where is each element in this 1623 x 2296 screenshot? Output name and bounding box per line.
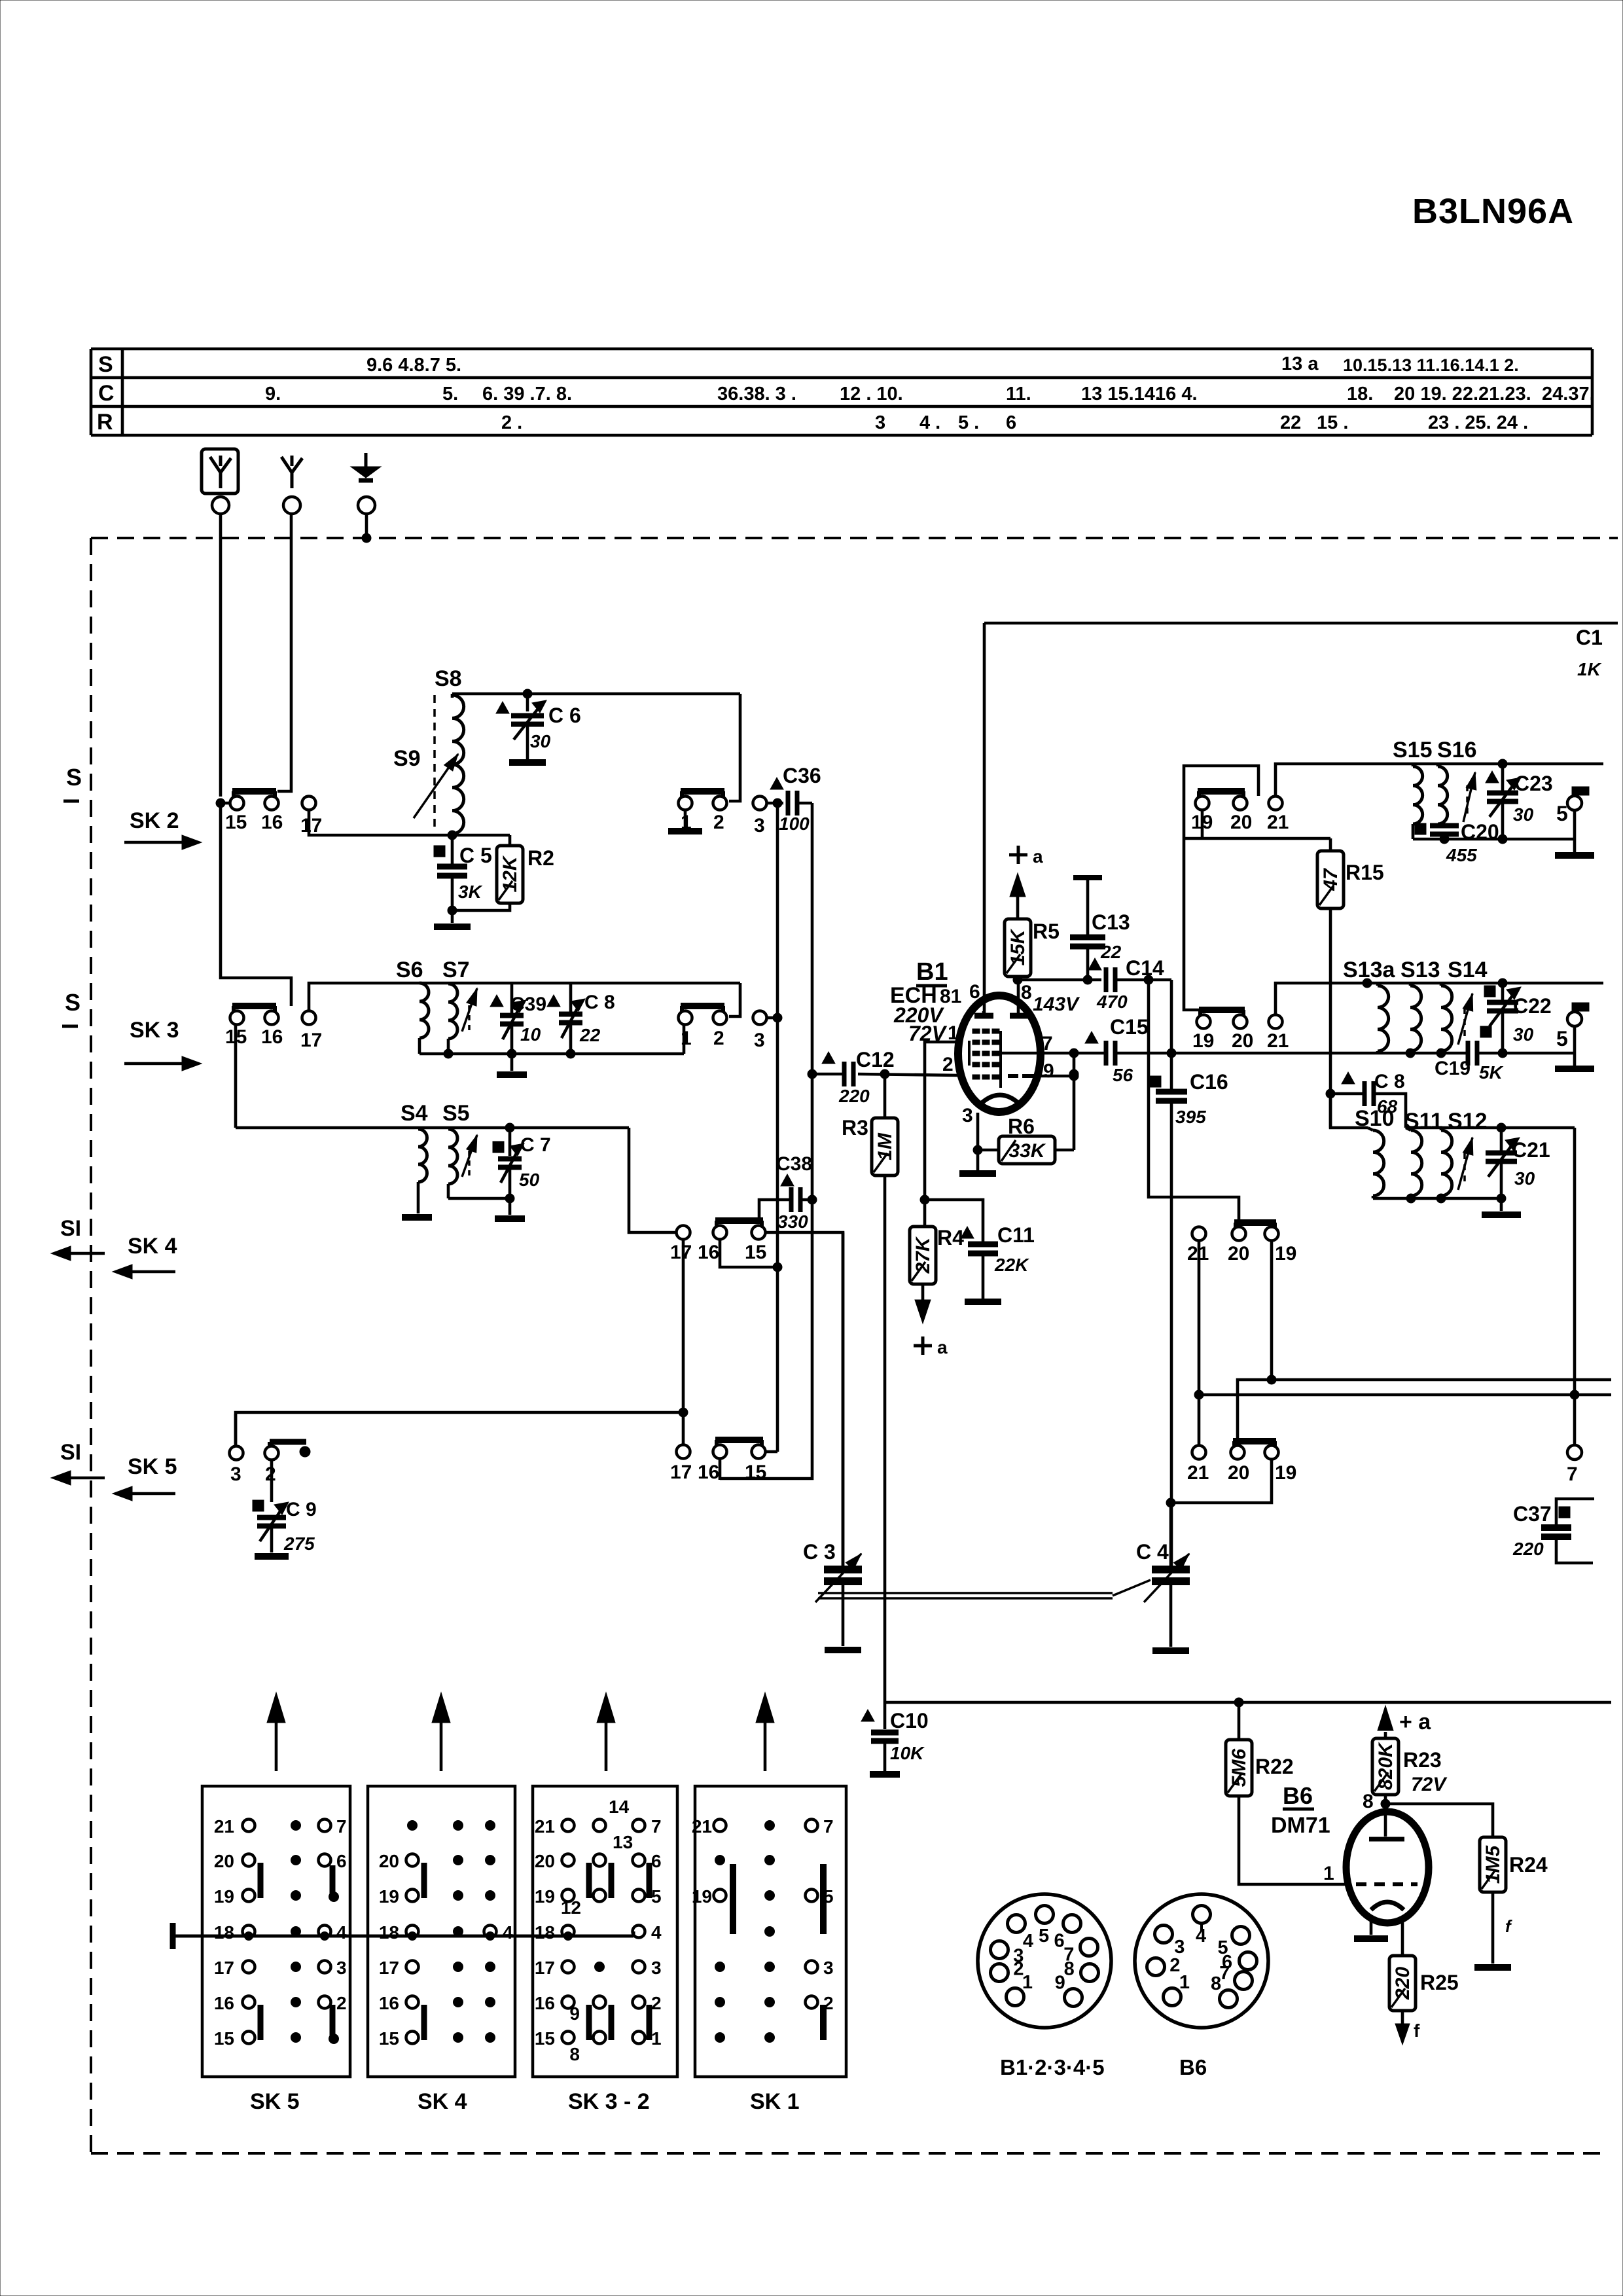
switch contacts 1-2 (SK3 row): [681, 1003, 724, 1009]
contact 17 (osc lower): [677, 1445, 690, 1459]
capacitor C9 marker: [253, 1500, 264, 1511]
svg-text:22: 22: [1280, 412, 1301, 433]
junction S14 bottom: [1436, 1049, 1446, 1058]
svg-text:15: 15: [745, 1462, 766, 1483]
svg-text:B6: B6: [1283, 1782, 1313, 1809]
junction S7 bottom: [444, 1049, 453, 1058]
variable arrow S16: [1463, 772, 1475, 822]
capacitor C13 top bar: [1073, 875, 1102, 880]
wire C15 to IF transformer: [1115, 1052, 1468, 1055]
svg-text:5: 5: [1556, 802, 1568, 825]
ground below C39: [510, 1054, 514, 1071]
wire grid6 top bus: [984, 622, 1618, 625]
trimmer capacitor C6: [526, 694, 529, 711]
junction reaction line: [1570, 1390, 1579, 1399]
svg-text:1: 1: [651, 2028, 662, 2049]
switch wafer SK5 box: [202, 1786, 350, 2077]
wire staple to contact 20: [1184, 766, 1258, 838]
switch SK2 contacts 15-16: [232, 788, 276, 795]
svg-text:21: 21: [535, 1816, 555, 1837]
svg-text:S15: S15: [1393, 738, 1433, 762]
junction S11 bottom: [1406, 1194, 1416, 1203]
svg-text:330: 330: [777, 1211, 808, 1232]
wire IF2 bar feed: [1184, 838, 1200, 1010]
coil S13: [1410, 986, 1421, 1051]
wafer common shaft line: [170, 1923, 176, 1949]
svg-text:820K: 820K: [1375, 1742, 1397, 1790]
tube socket B1-2-3-4-5: [978, 1894, 1111, 2028]
svg-text:3K: 3K: [458, 882, 483, 902]
switch SK3 arrow: [124, 1062, 185, 1066]
SK5 middle dots: [291, 1821, 301, 1831]
junction C12/R3: [880, 1069, 889, 1079]
SK1 right bridges: [820, 1864, 827, 1934]
variable arrow S7: [462, 988, 477, 1031]
variable arrow S12: [1458, 1138, 1472, 1190]
B6 filament arc: [1371, 1902, 1404, 1910]
svg-text:5.: 5.: [442, 384, 458, 404]
arrow above SK4 wafer: [440, 1713, 443, 1771]
svg-text:C23: C23: [1514, 772, 1553, 795]
wire SK2-17 to C5/R2 node: [309, 810, 451, 835]
svg-text:+ a: + a: [1399, 1710, 1431, 1734]
wire R3 down to HT bus: [883, 1175, 887, 1702]
SK4 left bridges: [421, 1863, 427, 1898]
IF1 bottom rail: [1413, 838, 1575, 841]
svg-text:S: S: [66, 764, 82, 791]
S10-S12 bottom rail: [1373, 1197, 1501, 1200]
svg-text:C15: C15: [1110, 1015, 1149, 1039]
black square marker C22 top: [1484, 986, 1495, 997]
wire SK5-2 down to C9: [270, 1460, 274, 1502]
svg-text:SK 1: SK 1: [750, 2089, 800, 2114]
wire pin8 node to C14: [1018, 978, 1101, 982]
svg-text:15: 15: [745, 1242, 766, 1263]
resistor R2: [452, 834, 510, 837]
coil S8 S9 (antenna coil): [452, 695, 464, 834]
coil S14: [1441, 986, 1452, 1051]
resistor R22: [1238, 1702, 1241, 1740]
svg-text:4 .: 4 .: [919, 412, 940, 433]
svg-text:17: 17: [214, 1958, 234, 1978]
svg-text:220: 220: [1392, 1967, 1414, 2000]
junction contact3 SK2 row: [773, 798, 782, 808]
svg-text:C12: C12: [856, 1048, 895, 1071]
svg-text:3: 3: [651, 1958, 662, 1978]
svg-text:S12: S12: [1448, 1109, 1488, 1134]
resistor R25: [1389, 1956, 1416, 2011]
junction 19 line: [1267, 1375, 1276, 1384]
svg-text:15: 15: [379, 2028, 399, 2049]
wire osc-16 down to junction: [720, 1240, 777, 1267]
IF2 top rail: [1367, 982, 1603, 985]
SK3-2 middle pins: [594, 1820, 606, 1832]
svg-text:6: 6: [336, 1851, 347, 1871]
junction S12 bottom: [1436, 1194, 1446, 1203]
tube socket B6: [1135, 1894, 1268, 2028]
ground below C11: [965, 1299, 1001, 1305]
svg-text:C: C: [98, 381, 115, 406]
svg-text:17: 17: [300, 815, 322, 836]
wire 19 stub down: [1201, 810, 1204, 838]
svg-text:C37: C37: [1513, 1502, 1552, 1526]
svg-text:30: 30: [530, 731, 551, 751]
svg-text:13 15.14.: 13 15.14.: [1081, 384, 1160, 404]
svg-text:C16: C16: [1190, 1070, 1228, 1094]
svg-text:SK 5: SK 5: [250, 2089, 300, 2114]
svg-text:5 .: 5 .: [958, 412, 979, 433]
junction C7 top: [505, 1123, 514, 1132]
svg-text:21: 21: [1267, 812, 1289, 833]
junction C39 bottom: [507, 1049, 516, 1058]
ground below C7: [508, 1198, 512, 1215]
wire 19 lower to AVC node: [1171, 1460, 1272, 1503]
svg-text:4: 4: [503, 1922, 513, 1943]
wire R15 down: [1329, 908, 1332, 1128]
B6 filament right lead: [1401, 1918, 1404, 1956]
svg-text:18: 18: [535, 1922, 555, 1943]
switch wafer SK1 box: [695, 1786, 846, 2077]
svg-text:10K: 10K: [890, 1743, 925, 1763]
resistor R15: [1329, 838, 1332, 851]
svg-text:C11: C11: [997, 1223, 1035, 1247]
svg-text:20: 20: [379, 1851, 399, 1871]
junction earth on border: [362, 533, 371, 543]
ground IF1: [1573, 839, 1577, 852]
wire A1 bus down to SK3: [221, 803, 291, 1006]
svg-text:72V: 72V: [1411, 1774, 1448, 1795]
svg-text:20 19. 22.21.23.: 20 19. 22.21.23.: [1394, 384, 1531, 404]
svg-text:9.: 9.: [265, 384, 281, 404]
svg-text:30: 30: [1513, 804, 1534, 825]
svg-text:SI: SI: [60, 1216, 81, 1241]
ground IF2: [1573, 1053, 1577, 1066]
svg-text:C 9: C 9: [286, 1499, 317, 1520]
svg-text:SK 4: SK 4: [418, 2089, 467, 2114]
svg-text:220: 220: [838, 1086, 870, 1106]
svg-text:C36: C36: [783, 764, 821, 787]
wire pin1 left and down: [925, 1042, 958, 1227]
ground below C6: [509, 759, 546, 766]
svg-text:6: 6: [1054, 1931, 1065, 1952]
ground below contact 1 (SK2 row): [684, 810, 687, 829]
capacitor C8 (osc): [1342, 1072, 1355, 1084]
svg-text:8: 8: [1064, 1958, 1075, 1979]
wire 19 down: [1270, 1241, 1274, 1380]
svg-text:17: 17: [379, 1958, 399, 1978]
svg-text:S: S: [98, 352, 113, 377]
svg-text:36.38. 3 .: 36.38. 3 .: [717, 384, 796, 404]
wire S6/S7 bottom rail: [419, 1052, 684, 1056]
svg-text:S7: S7: [442, 958, 470, 982]
junction R6/pin3: [973, 1145, 982, 1155]
parts location table frame: [91, 348, 1592, 351]
capacitor C20: [1430, 823, 1459, 829]
svg-text:SI: SI: [60, 1440, 81, 1465]
HT bus: [885, 1701, 1611, 1704]
capacitor C16 marker: [1150, 1076, 1161, 1087]
junction C12/grid bus: [808, 1069, 817, 1079]
svg-text:15: 15: [214, 2028, 234, 2049]
svg-text:7: 7: [651, 1816, 662, 1837]
resistor R4: [910, 1227, 936, 1284]
svg-text:3: 3: [754, 815, 765, 836]
svg-text:11.: 11.: [1006, 384, 1031, 404]
svg-text:1K: 1K: [1577, 659, 1602, 679]
svg-text:R23: R23: [1403, 1748, 1442, 1772]
terminal 5 (IF2): [1572, 1003, 1589, 1011]
antenna terminal A2 (antenna symbol): [291, 470, 294, 488]
junction C22 bottom: [1498, 1049, 1507, 1058]
svg-text:SK 5: SK 5: [128, 1454, 177, 1479]
svg-text:16: 16: [261, 1026, 283, 1048]
svg-text:R4: R4: [937, 1226, 964, 1249]
svg-text:S13a: S13a: [1343, 958, 1395, 982]
contact 2 (SK5) with bar: [265, 1446, 279, 1460]
svg-text:81: 81: [940, 986, 961, 1007]
svg-text:15: 15: [535, 2028, 555, 2049]
svg-text:5M6: 5M6: [1228, 1749, 1250, 1787]
svg-text:15K: 15K: [1007, 928, 1029, 965]
svg-text:C 4: C 4: [1136, 1540, 1169, 1564]
svg-text:5: 5: [1556, 1027, 1568, 1050]
svg-text:5K: 5K: [1479, 1062, 1504, 1083]
coil S4: [418, 1129, 427, 1182]
wire S5 rail to oscillator switch: [629, 1128, 676, 1232]
contact 21 (IF in): [1269, 797, 1283, 810]
wire 21 riser to S15 rail: [1275, 764, 1603, 796]
svg-text:16: 16: [379, 1993, 399, 2013]
ground below C21: [1500, 1198, 1503, 1211]
junction C23 bottom: [1498, 834, 1507, 844]
tube B6 envelope: [1346, 1812, 1429, 1923]
svg-text:3: 3: [754, 1030, 765, 1051]
SK5 right bridges: [330, 1865, 336, 1894]
pin 6 electrode: [974, 1013, 993, 1019]
svg-text:S8: S8: [435, 666, 462, 691]
svg-text:8: 8: [569, 2044, 580, 2064]
svg-text:C19: C19: [1435, 1058, 1471, 1079]
ground below C5: [451, 910, 454, 923]
svg-text:2: 2: [713, 1028, 724, 1049]
svg-text:20: 20: [535, 1851, 555, 1871]
svg-text:22K: 22K: [994, 1255, 1029, 1275]
capacitor C10: [861, 1710, 874, 1721]
svg-text:20: 20: [1232, 1030, 1253, 1052]
wire top rail right to contacts 1-2 (SK2 row): [729, 694, 740, 801]
junction AVC/C4: [1166, 1498, 1175, 1507]
svg-text:7: 7: [1042, 1033, 1053, 1054]
svg-text:S5: S5: [442, 1101, 470, 1126]
chassis dashed border top: [91, 537, 1618, 539]
junction S9 bottom / C5: [448, 831, 457, 840]
svg-text:16: 16: [698, 1462, 719, 1483]
switch contacts 19-20 (IF in, band top): [1198, 788, 1245, 795]
SK1 left bridge: [730, 1864, 736, 1934]
svg-text:R5: R5: [1033, 920, 1060, 943]
switch wafer SK4 box: [368, 1786, 515, 2077]
wire osc-15 right to C3 line: [765, 1232, 843, 1566]
junction C21 bottom: [1497, 1194, 1506, 1203]
wire osc coupling down to band switch: [1149, 980, 1239, 1221]
wire R25 to f: [1401, 2011, 1404, 2026]
tuning gang coupling line: [818, 1592, 1113, 1594]
screen grid bracket inside B1: [968, 1041, 971, 1066]
chassis dashed border left: [90, 538, 92, 2153]
wire C16 branch down: [1170, 980, 1173, 1090]
wire C36 down (osc grid bus): [811, 803, 814, 1074]
supply +a above R5: [1009, 853, 1027, 857]
junction S13 bottom: [1406, 1049, 1415, 1058]
svg-text:21: 21: [1267, 1030, 1289, 1052]
svg-text:R3: R3: [842, 1116, 868, 1139]
capacitor C15: [1085, 1031, 1098, 1043]
svg-text:16: 16: [535, 1993, 555, 2013]
svg-text:8: 8: [1363, 1791, 1374, 1812]
svg-text:R24: R24: [1509, 1853, 1548, 1876]
capacitor C16: [1156, 1089, 1187, 1095]
svg-text:20: 20: [1230, 812, 1252, 833]
junction C6 top: [523, 689, 532, 698]
svg-text:19: 19: [692, 1886, 712, 1907]
svg-text:1: 1: [1179, 1972, 1190, 1993]
svg-text:22: 22: [1100, 942, 1122, 962]
SK5 left bridges: [258, 1863, 264, 1898]
svg-text:3: 3: [823, 1958, 834, 1978]
wire earth to chassis: [365, 514, 368, 538]
ground below pin3: [959, 1170, 996, 1177]
SK1 middle dots: [765, 1821, 775, 1831]
resistor R24: [1480, 1837, 1506, 1892]
svg-text:DM71: DM71: [1271, 1813, 1330, 1838]
svg-text:470: 470: [1096, 992, 1128, 1012]
junction A1/SK2-15: [216, 798, 225, 808]
svg-text:9: 9: [1055, 1973, 1065, 1994]
svg-text:S14: S14: [1448, 958, 1488, 982]
capacitor C5: [451, 835, 454, 864]
arrow out SK4 row: [68, 1252, 105, 1255]
wire pin3 down: [976, 1113, 980, 1170]
arrow out SK5 row: [68, 1477, 105, 1480]
wire pin9 from tube: [1038, 1075, 1074, 1078]
variable arrow S5: [462, 1135, 477, 1177]
contact 17 (SK3): [302, 1011, 316, 1025]
contact 3 (SK3 row): [753, 1011, 767, 1025]
capacitor C13: [1086, 878, 1090, 935]
wire R15 to S10: [1330, 1094, 1368, 1128]
contact 17 (SK2): [302, 797, 316, 810]
svg-text:SK 2: SK 2: [130, 808, 179, 833]
wire 21 down to reaction line: [1198, 1241, 1201, 1395]
svg-text:SK 3: SK 3: [130, 1018, 179, 1043]
svg-text:275: 275: [283, 1534, 315, 1554]
svg-text:3: 3: [962, 1105, 973, 1126]
svg-text:19: 19: [535, 1886, 555, 1907]
svg-text:C38: C38: [776, 1153, 812, 1175]
wire osc grid bus down: [720, 1074, 812, 1479]
trimmer capacitor C8 (input): [547, 995, 560, 1007]
svg-text:1: 1: [1323, 1863, 1334, 1884]
svg-text:30: 30: [1513, 1024, 1534, 1045]
coil S8/S9 core dashed line: [433, 695, 436, 830]
svg-text:f: f: [1414, 2020, 1420, 2041]
wire S4/S5 top rail: [236, 1126, 629, 1130]
contact 7: [1567, 1445, 1582, 1460]
svg-text:10: 10: [520, 1024, 541, 1045]
svg-text:21: 21: [692, 1816, 712, 1837]
svg-text:455: 455: [1446, 845, 1477, 865]
wire R6 right: [1055, 1149, 1074, 1152]
junction pin7 line / C16: [1167, 1049, 1176, 1058]
wire C14 to osc section: [1115, 978, 1171, 982]
B6 filament left lead to ground: [1370, 1918, 1373, 1935]
svg-text:a: a: [937, 1337, 948, 1357]
svg-text:2: 2: [942, 1054, 954, 1075]
wire contact 3 to grid bus: [767, 1016, 777, 1020]
wire S5/C7 bottom rail: [448, 1197, 510, 1200]
earth antenna terminal: [365, 453, 368, 467]
svg-text:20: 20: [1228, 1462, 1249, 1484]
wire S6/S7 top rail: [419, 982, 740, 985]
contact 21 (IF2 in): [1269, 1015, 1283, 1029]
capacitor C19: [1466, 1041, 1471, 1066]
svg-text:S: S: [65, 989, 80, 1016]
SK5 right pins: [319, 1820, 331, 1832]
wire antenna A1 down: [219, 514, 223, 797]
coil S16: [1438, 766, 1448, 824]
ground below C4: [1152, 1647, 1189, 1654]
wire R5 to +a: [1016, 894, 1020, 919]
svg-text:22: 22: [579, 1025, 601, 1045]
arrow above SK5 wafer: [275, 1713, 278, 1771]
resistor R23: [1372, 1738, 1399, 1795]
junction contact3/vertical: [773, 1013, 782, 1022]
wire pin9 tie down to R6: [1073, 1053, 1076, 1150]
SK3-2 right bridges: [647, 1863, 652, 1898]
black square marker S15: [1415, 823, 1426, 834]
svg-text:19: 19: [1275, 1462, 1296, 1484]
coil S13a: [1378, 986, 1389, 1051]
SK1 left pins: [714, 1820, 726, 1832]
junction C21 top: [1497, 1123, 1506, 1132]
svg-text:100: 100: [779, 814, 810, 834]
svg-text:23 . 25. 24 .: 23 . 25. 24 .: [1428, 412, 1528, 433]
svg-text:1: 1: [681, 1028, 692, 1049]
svg-text:S4: S4: [401, 1101, 428, 1126]
svg-text:S6: S6: [396, 958, 423, 982]
triode anode dash inside B1: [1008, 1074, 1018, 1078]
svg-text:12: 12: [561, 1897, 581, 1918]
svg-text:C 8: C 8: [1374, 1071, 1405, 1092]
tube B1 envelope: [958, 996, 1041, 1112]
svg-text:220: 220: [1512, 1539, 1544, 1559]
svg-text:143V: 143V: [1033, 994, 1080, 1015]
S11-S12 top rail: [1406, 1126, 1575, 1130]
svg-text:C22: C22: [1513, 994, 1552, 1018]
coil S15: [1413, 766, 1423, 824]
svg-text:3: 3: [336, 1958, 347, 1978]
svg-text:19: 19: [214, 1886, 234, 1907]
contact 17 (osc upper): [677, 1226, 690, 1240]
wire S8 top rail: [452, 692, 740, 696]
wire vertical to mid switch: [776, 1018, 779, 1267]
svg-text:15 .: 15 .: [1317, 412, 1348, 433]
wire R4 down to +a: [921, 1284, 925, 1306]
wire to C11: [925, 1200, 983, 1242]
svg-text:7: 7: [1567, 1463, 1578, 1485]
capacitor C7 marker: [493, 1141, 504, 1153]
junction C22 top: [1498, 978, 1507, 988]
